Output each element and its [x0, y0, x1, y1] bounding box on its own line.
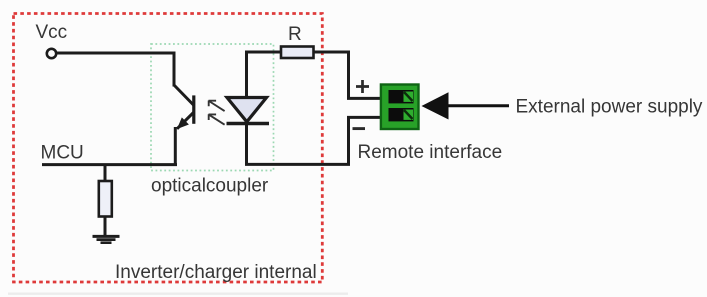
svg-text:Remote interface: Remote interface — [358, 142, 503, 163]
transistor Q1 (photo-transistor of optocoupler) — [174, 52, 194, 166]
svg-text:MCU: MCU — [41, 143, 84, 164]
connector J1 port 1 cavity — [389, 90, 414, 103]
label minus sign — [353, 127, 366, 130]
external power supply arrow shaft — [448, 104, 509, 107]
connector J1 port 1 screw — [404, 92, 414, 102]
label plus sign — [356, 80, 369, 93]
svg-text:Inverter/charger internal: Inverter/charger internal — [115, 262, 317, 283]
green dotted box (optocoupler outline) — [151, 44, 274, 171]
transistor Q1 emitter arrowhead — [178, 118, 188, 128]
connector J1 (remote interface terminal block) body — [381, 85, 419, 130]
ground symbol — [93, 236, 120, 242]
wire LED cathode down — [245, 124, 248, 164]
svg-text:opticalcoupler: opticalcoupler — [151, 176, 269, 197]
LED D1 (optocoupler diode) triangle — [227, 98, 267, 122]
red dashed boundary box (Inverter/charger internal) — [14, 14, 323, 283]
wire resistor R2 to ground — [104, 217, 107, 237]
wire Vcc to transistor collector — [57, 52, 176, 55]
faint scan artifact line bottom — [8, 293, 348, 295]
connector J1 port 2 screw — [404, 110, 414, 120]
svg-text:R: R — [288, 24, 302, 45]
light arrows from LED to transistor — [209, 101, 225, 125]
svg-text:Vcc: Vcc — [36, 22, 68, 43]
wire LED anode to resistor R — [247, 52, 282, 98]
wire MCU node down to resistor R2 — [104, 165, 107, 181]
resistor R2 (vertical, pull-down) — [99, 181, 112, 217]
LED D1 cathode bar — [227, 122, 270, 126]
external power supply arrow head — [422, 92, 449, 119]
wire resistor R to connector plus terminal — [314, 52, 382, 98]
wire connector minus terminal to LED cathode — [245, 117, 381, 164]
resistor R (horizontal) — [281, 47, 314, 59]
connector J1 port 2 cavity — [389, 108, 414, 121]
wire MCU to transistor emitter — [42, 163, 177, 166]
svg-text:External power supply: External power supply — [516, 97, 703, 118]
terminal Vcc (open circle) — [47, 49, 56, 58]
